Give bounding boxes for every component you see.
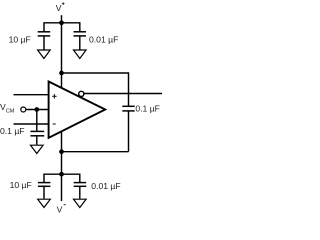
svg-text:0.01 µF: 0.01 µF <box>89 34 118 44</box>
node V+ label <box>56 2 65 13</box>
svg-text:10 µF: 10 µF <box>10 180 32 190</box>
capacitor C4 0.1uF VCM plates <box>30 110 44 145</box>
op-amp U1 <box>49 82 106 138</box>
node junction dot top rail <box>59 20 64 25</box>
ground below C2 <box>74 50 87 59</box>
svg-text:0.1 µF: 0.1 µF <box>0 126 25 136</box>
plus input mark <box>52 94 56 98</box>
svg-text:V: V <box>56 3 62 13</box>
svg-text:V: V <box>57 204 63 214</box>
wire V+ vertical feed <box>61 15 63 88</box>
wire V- to 0.1uF cap <box>62 151 129 153</box>
capacitor C5 10uF bottom plates <box>38 183 51 199</box>
node VCM label <box>0 102 15 114</box>
svg-text:CM: CM <box>6 109 15 115</box>
ground below C6 <box>74 199 87 207</box>
node junction dot V+ pin <box>59 71 64 76</box>
capacitor C3 0.1uF right plates <box>122 106 134 151</box>
ground below C5 <box>38 199 51 207</box>
svg-text:0.1 µF: 0.1 µF <box>135 103 160 113</box>
node junction dot V- pin <box>59 149 64 154</box>
wire V+ to 0.1uF cap rail <box>62 73 129 106</box>
node junction dot bottom rail <box>59 172 64 177</box>
node junction dot VCM <box>34 107 39 112</box>
wire VCM to opamp <box>26 109 49 111</box>
wire bottom bypass rail <box>44 174 80 182</box>
output bubble <box>79 91 84 96</box>
wire top bypass rail <box>44 23 80 31</box>
wire noninverting input <box>14 94 49 96</box>
capacitor C2 0.01uF top plates <box>74 32 87 50</box>
node V- label <box>57 204 66 214</box>
wire inverting input <box>14 123 49 125</box>
svg-text:10 µF: 10 µF <box>9 34 31 44</box>
terminal circle VCM <box>21 107 26 112</box>
wire output <box>84 93 162 95</box>
svg-text:0.01 µF: 0.01 µF <box>91 181 120 191</box>
minus input mark <box>53 123 56 125</box>
ground below C4 <box>31 145 44 153</box>
capacitor C1 10uF top plates <box>38 32 51 50</box>
ground below C1 <box>38 50 51 59</box>
capacitor C6 0.01uF bottom plates <box>74 183 87 199</box>
wire V- pin feed <box>61 131 63 201</box>
